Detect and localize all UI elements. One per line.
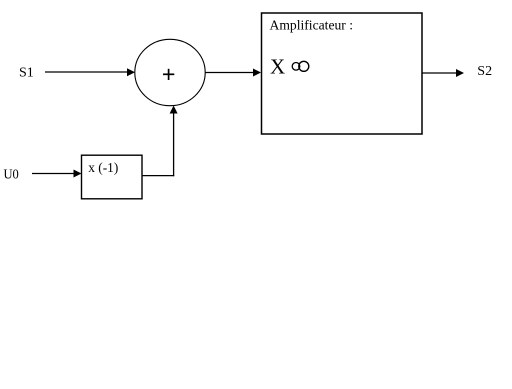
svg-text:Amplificateur :: Amplificateur :	[270, 19, 354, 34]
inverter block x(-1)	[82, 155, 143, 199]
svg-text:x (-1): x (-1)	[88, 161, 118, 176]
wire inverter to summing junction	[142, 106, 178, 177]
svg-text:U0: U0	[4, 167, 19, 182]
summing junction	[135, 39, 205, 105]
plus sign	[163, 69, 174, 80]
wire S1 to summing junction	[45, 68, 135, 76]
gain label infinity left lobe	[292, 63, 300, 71]
svg-text:X: X	[270, 55, 285, 79]
svg-text:S1: S1	[19, 65, 34, 80]
wire summing junction to amplifier	[206, 69, 262, 77]
svg-text:S2: S2	[477, 64, 492, 79]
wire U0 to inverter	[32, 170, 82, 178]
gain label infinity right lobe	[299, 61, 309, 71]
wire amplifier to S2	[422, 69, 464, 77]
amplifier block U1	[262, 13, 423, 134]
